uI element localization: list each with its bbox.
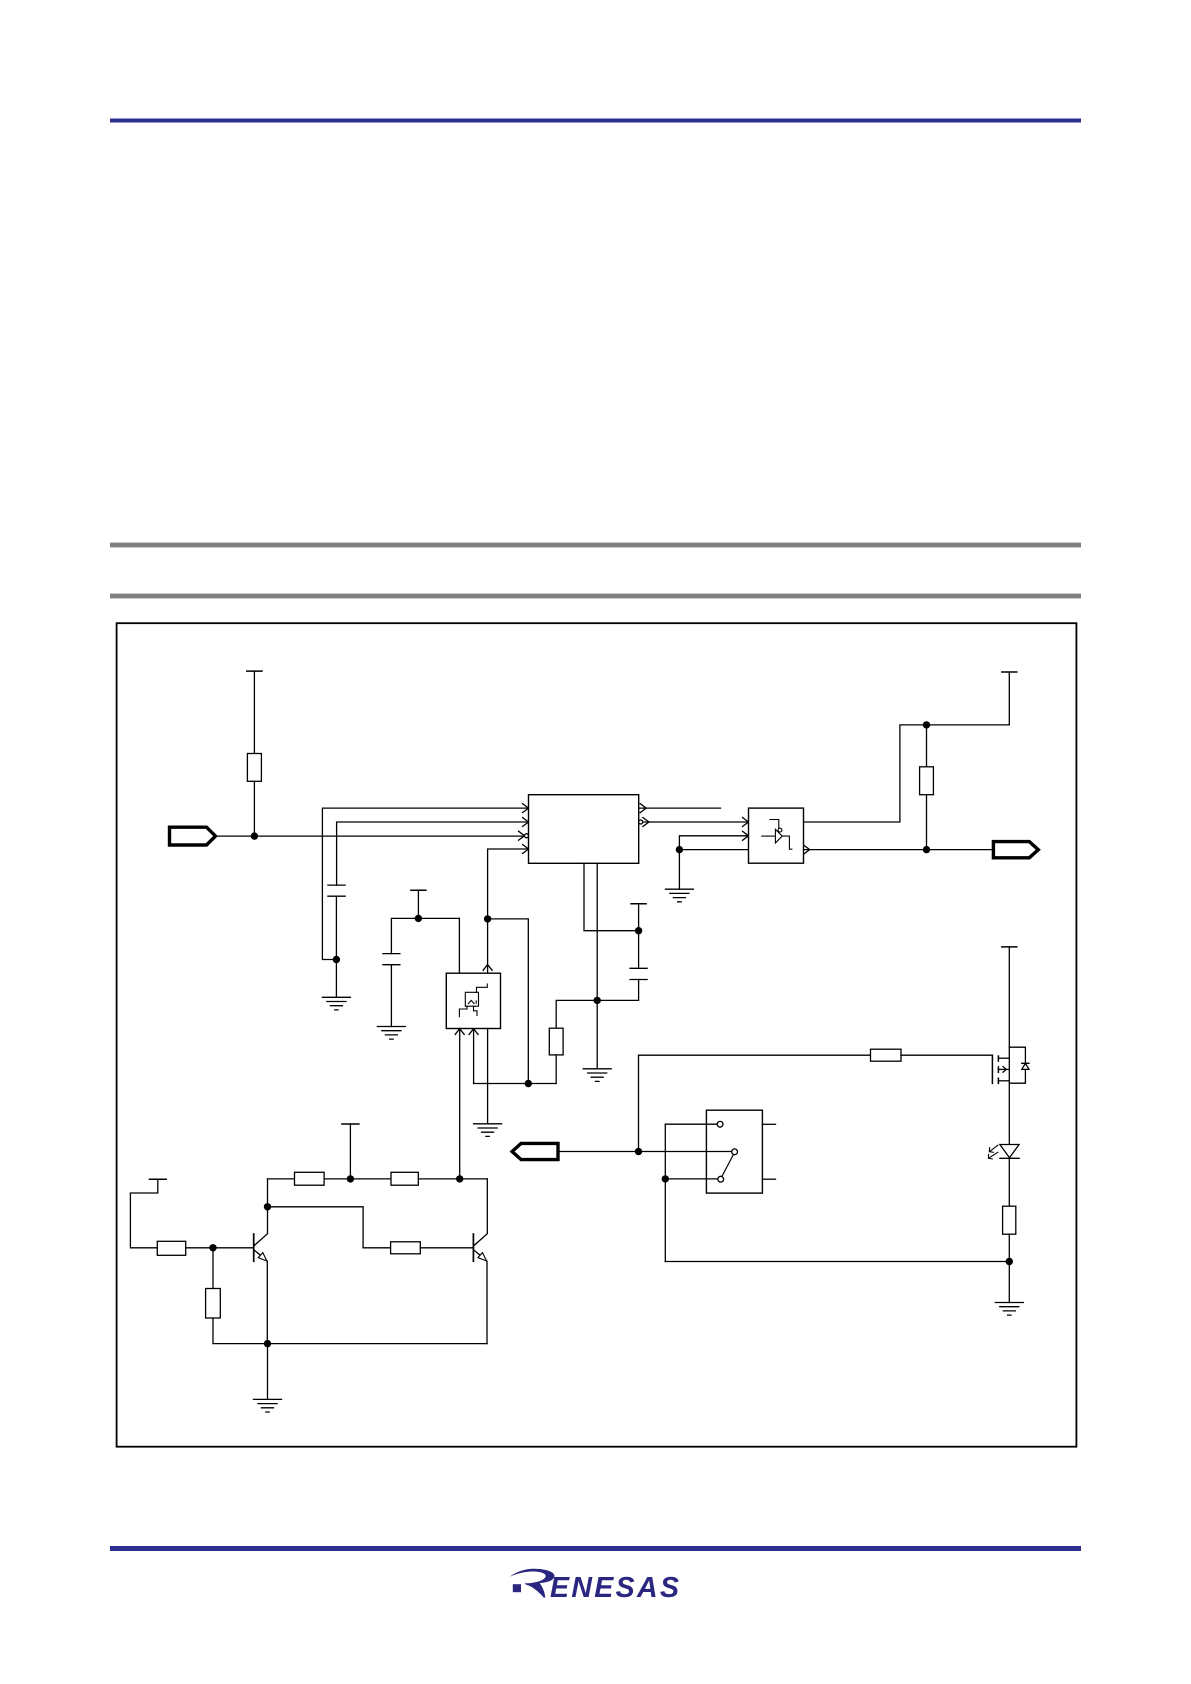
wire C3 to R3 node (597, 980, 638, 1001)
LED D2 triangle (1000, 1145, 1019, 1158)
junction dot C1/ground node (333, 956, 340, 963)
output tag (993, 842, 1038, 858)
wire node to ground G4 (596, 1000, 598, 1068)
resistor R3 (549, 1028, 563, 1055)
IC bottom pin wire a (584, 863, 639, 930)
junction dot thermal sense node (484, 915, 491, 922)
MOSFET stub source (998, 1080, 1009, 1082)
buffer icon triangle (775, 829, 782, 843)
wire to thermal box top pin1 (458, 918, 460, 973)
wire buffer pin3 (679, 849, 748, 851)
wire node to R7 (212, 1248, 214, 1289)
power stub P7 (base feed) (149, 1178, 166, 1180)
resistor R1 (247, 754, 261, 782)
wire P1 to R1 (253, 671, 255, 753)
switch contact circle bottom (718, 1176, 724, 1182)
MOSFET stub body with arrow (998, 1068, 1009, 1070)
arrow into IC pin3 (519, 831, 525, 840)
wire R3 to bottom node (474, 1055, 557, 1084)
section bar 1 (110, 543, 1081, 548)
IC bottom pin wire b (596, 863, 598, 1000)
wire node to ground G5 (678, 850, 680, 890)
wire R1 to input node (253, 781, 255, 836)
arrow out of buffer (804, 845, 810, 854)
wire R4 to gate (901, 1054, 992, 1056)
junction dot output node (923, 846, 930, 853)
arrow up into box pin b1 (455, 1029, 464, 1035)
arrow into IC pin2 (523, 818, 529, 827)
wire IC pin2 (337, 822, 529, 885)
IC U1 (529, 795, 639, 864)
bottom rule (110, 1546, 1081, 1551)
capacitor C3 (630, 968, 647, 979)
wire node to ground G6 (267, 1344, 269, 1400)
bottom tag (left pointing) (512, 1143, 558, 1159)
buffer icon output path (782, 836, 792, 849)
ground G2 (377, 1027, 405, 1040)
wire switch bottom pin (665, 1178, 718, 1180)
svg-text:ENESAS: ENESAS (550, 1572, 679, 1604)
arrow up into box pin b2 (469, 1029, 478, 1035)
inversion bubble IC pin3 (525, 834, 529, 838)
wire node to ground G7 (1008, 1262, 1010, 1303)
bottom return rail (665, 1261, 1009, 1263)
transistor Q1 base bar (253, 1234, 255, 1261)
MOSFET Q3 gate bar (991, 1055, 993, 1083)
transistor Q2 base bar (472, 1234, 474, 1261)
Q1 emitter arrowhead (258, 1253, 267, 1261)
power stub P3 (above C3) (631, 903, 646, 905)
arrow on body stub (1003, 1067, 1006, 1073)
junction dot Q1 collector node (264, 1203, 271, 1210)
wire P6 stem (349, 1124, 351, 1179)
switch right stub top (762, 1123, 775, 1125)
junction dot pull-up node (923, 721, 930, 728)
ground G3 (474, 1124, 502, 1137)
junction dot input node (251, 832, 258, 839)
buffer icon bubble (778, 828, 782, 832)
switch box S1 (706, 1110, 762, 1193)
LED emission arrow 2 (988, 1152, 998, 1159)
junction dot C3 node (635, 927, 642, 934)
wire input tag to IC pin3 (216, 835, 525, 837)
thermal sensor box U3 (446, 973, 500, 1028)
switch right stub bottom (762, 1178, 775, 1180)
ground G1 (322, 997, 350, 1010)
wire Q1 collector to R10 (268, 1207, 391, 1248)
wire C2 to ground G2 (390, 965, 392, 1027)
resistor R2 (920, 767, 934, 795)
power stub P6 (Q rail) (342, 1123, 359, 1125)
inversion bubble IC output2 (639, 820, 643, 824)
wire C2 node rail (391, 918, 459, 953)
section bar 2 (110, 594, 1081, 599)
resistor R4 (871, 1049, 902, 1061)
thermal icon lead bottom left (459, 1006, 467, 1017)
arrow into IC pin1 (523, 804, 529, 813)
junction dot emitter rail node (264, 1340, 271, 1347)
wire R6 to Q1 base (186, 1247, 254, 1249)
wire node to ground G1 (335, 960, 337, 998)
Q2 emitter arrowhead (478, 1253, 487, 1261)
junction dot P2 node (415, 915, 422, 922)
power stub P2 (above C2) (411, 889, 426, 891)
thermal icon lead top right (477, 984, 488, 992)
junction dot gate branch node (635, 1148, 642, 1155)
wire switch return vertical (664, 1124, 666, 1261)
wire buffer pin2 (679, 836, 748, 850)
IC output2 wire (643, 821, 749, 823)
IC output1 wire (639, 807, 721, 809)
wire LED to R11 (1008, 1158, 1010, 1206)
wire P3 stem (638, 904, 640, 931)
resistor R11 (1003, 1206, 1016, 1234)
wire box bottom pin3 to ground G3 (487, 1029, 489, 1124)
buffer output wire to rail (804, 672, 1010, 822)
junction dot return node (1006, 1258, 1013, 1265)
wire thermal node to box top pin2 (487, 919, 489, 973)
wire P7 to R6 (130, 1179, 157, 1248)
body diode D1 (1022, 1063, 1029, 1069)
wire IC pin1 (322, 808, 528, 959)
junction dot switch return node (662, 1175, 669, 1182)
ground G4 (583, 1069, 611, 1082)
arrow up thermal output (483, 965, 492, 971)
switch contact circle middle (732, 1149, 738, 1155)
wire C3 node down (638, 931, 640, 969)
top rule (110, 119, 1081, 123)
capacitor C2 (383, 954, 400, 965)
wire thermal node right (488, 919, 529, 1084)
resistor R7 (206, 1289, 221, 1319)
arrow into IC pin4 (523, 845, 529, 854)
wire node to R3 (556, 1000, 597, 1028)
MOSFET drain-source line (1008, 947, 1010, 1145)
junction dot P6 node (347, 1175, 354, 1182)
arrow out IC output1 (640, 804, 646, 813)
wire switch top pin (665, 1123, 717, 1125)
thermal icon inner box (465, 992, 478, 1006)
buffer U2 (749, 808, 804, 863)
junction dot base node (209, 1244, 216, 1251)
wire R11 to return node (1008, 1234, 1010, 1261)
wire node to R2 (926, 725, 928, 767)
wire P2 stem (417, 890, 419, 918)
buffer icon input line (762, 835, 776, 837)
wire IC pin4 (488, 849, 529, 919)
Q collector rail (268, 1178, 488, 1180)
wire box bottom pin1 to rail (459, 1029, 461, 1179)
schematic frame (117, 623, 1077, 1446)
wire gate branch (639, 1055, 871, 1151)
capacitor C1 (328, 885, 345, 896)
arrow into buffer pin2 (743, 831, 749, 840)
LED cathode bar (1000, 1157, 1019, 1159)
switch lever (722, 1155, 734, 1177)
resistor R10 (391, 1242, 421, 1254)
Q1 emitter (254, 1250, 267, 1343)
junction dot buffer gnd node (676, 846, 683, 853)
wire R7 to emitter rail (213, 1318, 487, 1344)
arrow into buffer pin1 (743, 818, 749, 827)
junction dot thermal rail node (456, 1175, 463, 1182)
Renesas logo (510, 1569, 679, 1604)
wire bottom tag to switch (558, 1151, 731, 1153)
Q1 collector (254, 1207, 267, 1246)
Q2 emitter (474, 1250, 487, 1343)
ground G5 (665, 889, 693, 902)
MOSFET channel dashes (997, 1056, 999, 1083)
input tag (170, 827, 216, 845)
MOSFET stub drain (998, 1057, 1009, 1059)
ground G6 (254, 1399, 282, 1412)
resistor R8 (295, 1172, 325, 1185)
thermal icon caret (468, 1000, 476, 1003)
buffer icon clock path (770, 820, 779, 829)
switch contact circle top (717, 1121, 723, 1127)
wire R10 to Q2 base (420, 1247, 473, 1249)
body diode branch (1009, 1047, 1025, 1083)
power stub P1 (top-left) (247, 670, 262, 672)
resistor R9 (391, 1172, 418, 1185)
junction dot R3 node (594, 997, 601, 1004)
resistor R6 (157, 1241, 185, 1255)
thermal icon lead bottom right (474, 1006, 478, 1015)
wire R2 to output wire (926, 795, 928, 850)
buffer output2 wire (804, 849, 994, 851)
wire Q1 collector to rail (267, 1179, 269, 1207)
ground G7 (995, 1303, 1023, 1316)
arrow on IC output2 start (643, 818, 649, 827)
power stub P5 (MOSFET drain) (1002, 946, 1017, 948)
LED emission arrow 1 (989, 1145, 998, 1152)
wire to thermal box bottom pin2 (473, 1029, 475, 1084)
Q2 collector (474, 1179, 487, 1246)
wire C1 to ground node (335, 896, 337, 959)
junction dot bottom node (525, 1080, 532, 1087)
power stub P4 (top right) (1002, 671, 1017, 673)
